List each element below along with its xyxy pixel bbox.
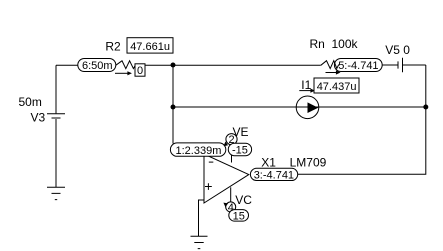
- svg-text:V5 0: V5 0: [385, 43, 410, 57]
- svg-text:4: 4: [228, 202, 234, 214]
- svg-text:47.437u: 47.437u: [317, 81, 357, 93]
- svg-text:Rn 100k: Rn 100k: [310, 37, 359, 51]
- svg-text:X1: X1: [261, 155, 276, 169]
- svg-text:5:-4.741: 5:-4.741: [338, 60, 378, 72]
- svg-text:VC: VC: [235, 193, 252, 207]
- svg-text:47.661u: 47.661u: [130, 41, 170, 53]
- svg-text:LM709: LM709: [290, 155, 327, 169]
- svg-text:50m: 50m: [19, 95, 42, 109]
- svg-text:6:50m: 6:50m: [82, 60, 113, 72]
- svg-text:1:2.339m: 1:2.339m: [176, 145, 222, 157]
- svg-text:3:-4.741: 3:-4.741: [254, 170, 294, 182]
- svg-text:15: 15: [233, 210, 245, 222]
- svg-text:2: 2: [229, 134, 235, 146]
- svg-text:-15: -15: [232, 145, 248, 157]
- svg-text:0: 0: [137, 65, 143, 77]
- svg-text:R2: R2: [105, 39, 121, 53]
- svg-text:I1: I1: [301, 78, 311, 92]
- svg-text:V3: V3: [31, 111, 46, 125]
- svg-text:VE: VE: [233, 125, 249, 139]
